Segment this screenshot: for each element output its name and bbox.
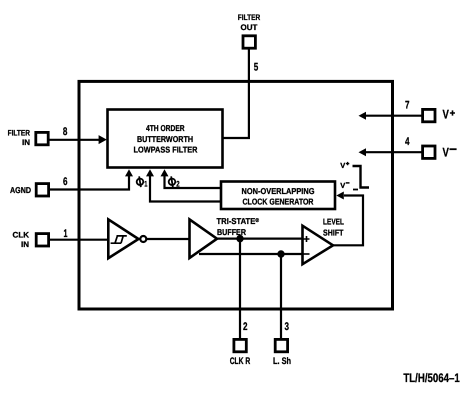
- wire filter output to pin 5: [222, 49, 249, 138]
- svg-text:V: V: [340, 181, 345, 190]
- svg-text:LEVEL: LEVEL: [323, 216, 344, 226]
- svg-text:FILTER: FILTER: [238, 13, 261, 22]
- pin 1 CLK IN terminal: [13, 228, 68, 249]
- wire V- into block with left arrow: [359, 148, 422, 156]
- svg-text:SHIFT: SHIFT: [323, 227, 344, 237]
- wire l.sh node to pin 3: [280, 254, 282, 339]
- svg-text:L. Sh: L. Sh: [273, 356, 291, 367]
- svg-text:BUTTERWORTH: BUTTERWORTH: [137, 134, 193, 144]
- svg-text:2: 2: [243, 321, 248, 333]
- svg-text:OUT: OUT: [241, 23, 258, 32]
- level shift comparator: [303, 216, 345, 264]
- pin 5 FILTER OUT terminal: [238, 13, 261, 74]
- svg-text:V: V: [443, 145, 450, 159]
- svg-text:IN: IN: [22, 138, 30, 147]
- svg-text:IN: IN: [21, 240, 29, 249]
- wire buffer output to level shift + input: [217, 238, 303, 240]
- tri-state buffer: [190, 216, 260, 258]
- block U1 4th order butterworth lowpass filter: [108, 110, 223, 168]
- svg-text:V: V: [340, 161, 345, 170]
- pin 6 AGND terminal: [10, 176, 68, 196]
- wire level shift output to clock generator with left arrow: [333, 192, 363, 246]
- junction node l.sh: [277, 250, 284, 257]
- junction node clk r: [236, 235, 243, 242]
- svg-text:1: 1: [64, 228, 68, 240]
- svg-text:1: 1: [144, 179, 148, 188]
- svg-text:4TH ORDER: 4TH ORDER: [146, 123, 185, 133]
- outer IC boundary box: [79, 81, 393, 309]
- svg-text:4: 4: [405, 136, 410, 148]
- pin 8 FILTER IN terminal: [8, 126, 68, 147]
- wire clk r node to pin 2: [239, 239, 241, 339]
- svg-text:CLK R: CLK R: [230, 356, 251, 367]
- pin 2 CLK R terminal: [230, 321, 251, 367]
- svg-text:TL/H/5064–1: TL/H/5064–1: [403, 371, 459, 385]
- wire schmitt output to buffer: [147, 238, 191, 240]
- wire buffer tri-state control to level shift - input: [199, 253, 303, 255]
- pin 4 V- terminal: [405, 136, 457, 159]
- svg-text:CLK: CLK: [13, 230, 30, 239]
- pin 3 L. Sh terminal: [273, 321, 291, 367]
- svg-text:8: 8: [63, 126, 68, 138]
- svg-text:3: 3: [285, 321, 290, 333]
- block U2 non-overlapping clock generator: [221, 182, 335, 210]
- svg-text:NON-OVERLAPPING: NON-OVERLAPPING: [242, 186, 315, 196]
- wire agnd to filter block with up arrow: [49, 169, 133, 189]
- svg-text:5: 5: [254, 62, 258, 74]
- svg-text:V: V: [443, 108, 450, 122]
- svg-text:6: 6: [63, 176, 68, 188]
- svg-text:LOWPASS FILTER: LOWPASS FILTER: [134, 145, 198, 155]
- pin 7 V+ terminal: [405, 99, 455, 122]
- svg-text:TRI-STATE®: TRI-STATE®: [217, 216, 260, 226]
- svg-text:AGND: AGND: [10, 185, 31, 195]
- clock waveform levels V+ / V- step symbol: [340, 161, 369, 190]
- svg-text:CLOCK GENERATOR: CLOCK GENERATOR: [243, 197, 314, 207]
- wire phi1 from clock generator to filter block: [146, 169, 221, 201]
- wire filter in to filter block with arrow: [49, 135, 107, 144]
- label phi2: [168, 176, 176, 188]
- label phi1: [136, 176, 144, 188]
- wire phi2 from clock generator to filter block: [161, 169, 222, 188]
- svg-text:7: 7: [405, 99, 410, 111]
- schmitt trigger inverter: [108, 219, 146, 258]
- svg-text:2: 2: [176, 179, 180, 188]
- wire clk in to schmitt trigger: [49, 239, 108, 241]
- wire V+ into block with left arrow: [359, 112, 422, 120]
- svg-text:FILTER: FILTER: [8, 129, 31, 138]
